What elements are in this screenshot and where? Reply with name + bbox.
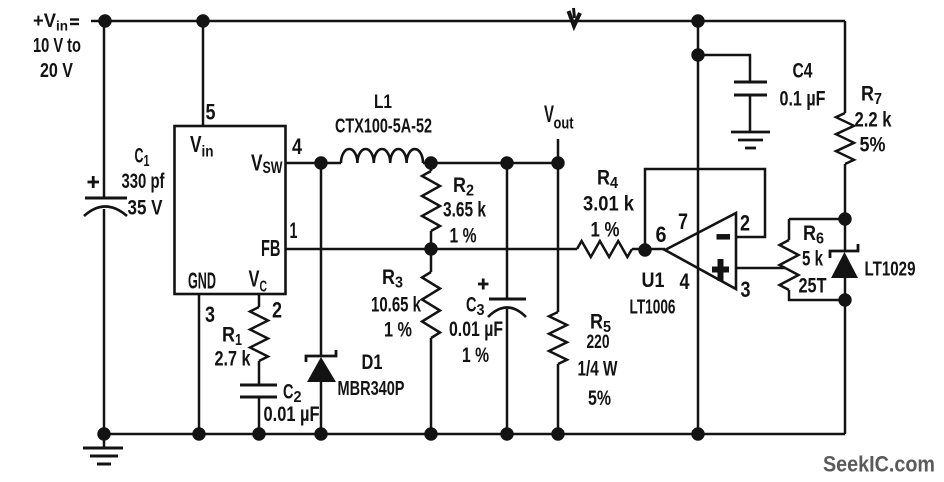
svg-text:4: 4 xyxy=(610,175,618,192)
R6 label xyxy=(803,222,824,248)
junction dot node V+ supply xyxy=(691,14,704,27)
potentiometer R6 xyxy=(780,240,799,290)
junction dot node gnd R3 xyxy=(424,427,437,440)
R1 label xyxy=(222,324,242,350)
IC label Vin xyxy=(190,131,214,161)
wire C4 to ground xyxy=(749,95,752,132)
svg-text:V: V xyxy=(249,266,260,292)
svg-text:C: C xyxy=(260,279,268,296)
C1 label xyxy=(135,145,150,171)
svg-text:1 %: 1 % xyxy=(450,225,477,248)
inductor L1 coil xyxy=(341,149,423,163)
wire C3 branch upper xyxy=(506,163,509,299)
C2 label xyxy=(283,381,302,407)
capacitor C1 (polarized) xyxy=(84,198,127,216)
C1 polarity + xyxy=(88,176,100,188)
svg-text:+V: +V xyxy=(33,11,56,32)
R7 label xyxy=(861,83,882,109)
wire D1 branch lower xyxy=(320,382,323,434)
svg-text:MBR340P: MBR340P xyxy=(338,378,405,400)
wire bottom ground rail xyxy=(104,433,845,436)
junction dot node gnd R5 xyxy=(551,427,564,440)
junction dot node op-amp output feedback xyxy=(638,243,651,256)
svg-text:C: C xyxy=(466,294,477,317)
svg-text:3: 3 xyxy=(395,275,403,292)
svg-text:out: out xyxy=(554,114,574,133)
op-amp inverting input minus xyxy=(717,234,731,240)
junction dot node pin5 branch xyxy=(196,14,209,27)
svg-text:L1: L1 xyxy=(374,92,392,113)
svg-text:R: R xyxy=(382,266,395,289)
node Vout label xyxy=(544,101,574,133)
svg-text:R: R xyxy=(590,311,603,334)
svg-text:R: R xyxy=(222,324,235,347)
svg-text:V: V xyxy=(251,150,263,176)
svg-text:1 %: 1 % xyxy=(591,219,620,242)
wire LT1029 cathode stub xyxy=(844,219,847,250)
wire R4 to op-amp output tip xyxy=(632,248,665,251)
svg-text:220: 220 xyxy=(587,332,610,353)
svg-text:0.01 µF: 0.01 µF xyxy=(449,318,503,341)
junction dot node gnd C1 xyxy=(97,427,110,440)
wire R7 upper lead xyxy=(844,21,847,113)
R4 label xyxy=(597,167,618,193)
svg-text:1 %: 1 % xyxy=(384,319,412,342)
svg-text:R: R xyxy=(861,83,874,106)
svg-text:3.65 k: 3.65 k xyxy=(443,199,486,222)
svg-text:R: R xyxy=(597,167,610,190)
svg-text:330 pf: 330 pf xyxy=(122,170,166,193)
svg-text:2.7 k: 2.7 k xyxy=(215,348,251,371)
junction dot node gnd V- xyxy=(691,427,704,440)
wire C1 branch upper xyxy=(103,21,106,198)
C3 label xyxy=(466,294,485,320)
svg-text:C4: C4 xyxy=(793,60,813,83)
wire current tick on top rail xyxy=(569,8,581,26)
svg-text:0.1 µF: 0.1 µF xyxy=(780,88,826,111)
junction dot node gnd C3 xyxy=(500,427,513,440)
svg-text:U1: U1 xyxy=(642,269,665,292)
svg-text:2.2 k: 2.2 k xyxy=(855,109,892,132)
svg-text:3: 3 xyxy=(741,277,751,302)
wire IC pin 3 GND to rail xyxy=(198,294,201,434)
svg-text:20 V: 20 V xyxy=(40,60,74,82)
svg-text:5 k: 5 k xyxy=(802,248,823,271)
svg-text:V: V xyxy=(544,101,554,128)
svg-text:FB: FB xyxy=(261,235,281,261)
junction dot node VSW D1 xyxy=(314,156,327,169)
resistor R5 xyxy=(549,312,567,364)
svg-text:1: 1 xyxy=(290,218,298,243)
wire pin 3 input to R6 wiper xyxy=(736,267,785,270)
wire FB line xyxy=(286,248,577,251)
svg-text:in: in xyxy=(202,144,214,161)
svg-text:2: 2 xyxy=(272,298,282,323)
svg-text:3: 3 xyxy=(205,302,215,327)
diode D1 Schottky xyxy=(306,350,336,382)
IC label VSW xyxy=(251,150,283,178)
wire R1 to C2 xyxy=(258,361,261,385)
svg-text:5%: 5% xyxy=(588,387,611,410)
svg-text:10 V to: 10 V to xyxy=(33,35,81,57)
svg-text:CTX100-5A-52: CTX100-5A-52 xyxy=(335,116,432,138)
svg-text:GND: GND xyxy=(188,268,216,294)
svg-text:7: 7 xyxy=(874,91,882,108)
junction dot node LT1029 anode xyxy=(838,293,851,306)
svg-text:1: 1 xyxy=(235,332,242,349)
op-amp U1 triangle xyxy=(665,213,736,289)
regulator IC box xyxy=(175,126,286,294)
wire supply vertical pins 7 and 4 xyxy=(697,21,700,434)
svg-text:LT1006: LT1006 xyxy=(630,297,676,319)
svg-text:in: in xyxy=(56,18,68,34)
junction dot node gnd D1 xyxy=(314,427,327,440)
resistor R4 xyxy=(577,241,632,257)
C3 polarity + xyxy=(478,279,489,290)
svg-text:0.01 µF: 0.01 µF xyxy=(264,403,320,426)
junction dot node FB divider xyxy=(424,242,437,255)
wire R3 leads xyxy=(430,249,433,434)
svg-text:1 %: 1 % xyxy=(462,344,489,367)
wire D1 branch upper xyxy=(320,163,323,355)
wire VSW to inductor xyxy=(286,162,341,165)
svg-text:6: 6 xyxy=(816,231,824,248)
svg-text:C: C xyxy=(283,381,294,404)
junction dot node gnd pin3 xyxy=(192,427,205,440)
wire R2 leads xyxy=(430,163,433,249)
svg-text:6: 6 xyxy=(656,222,667,247)
wire R6 body leads xyxy=(789,219,845,300)
ground symbol bottom-left xyxy=(83,448,123,464)
svg-text:LT1029: LT1029 xyxy=(865,259,916,281)
svg-text:7: 7 xyxy=(678,209,688,234)
IC label VC xyxy=(249,266,268,296)
junction dot node C3 top xyxy=(500,156,513,169)
wire top +Vin rail xyxy=(91,20,845,23)
svg-text:4: 4 xyxy=(292,134,303,159)
wire op-amp feedback loop pin 2 xyxy=(645,169,765,250)
svg-text:10.65 k: 10.65 k xyxy=(371,294,421,317)
junction dot node L1 R2 xyxy=(424,156,437,169)
resistor R7 xyxy=(836,113,854,164)
svg-text:D1: D1 xyxy=(362,351,383,374)
junction dot node +Vin C1 xyxy=(98,14,111,27)
svg-text:5: 5 xyxy=(206,100,216,125)
svg-text:5%: 5% xyxy=(860,134,886,157)
wire ground stub bottom-left xyxy=(103,434,106,448)
wire R5 leads xyxy=(557,163,560,434)
wire inductor to Vout node xyxy=(423,162,558,165)
resistor R1 xyxy=(250,307,268,361)
svg-text:SeekIC.com: SeekIC.com xyxy=(823,452,935,477)
ground symbol C4 xyxy=(731,132,770,148)
svg-text:1/4 W: 1/4 W xyxy=(578,358,618,381)
R3 label xyxy=(382,266,403,292)
wire C1 branch lower xyxy=(103,209,106,434)
wire pin 5 stub xyxy=(202,21,205,126)
svg-text:C: C xyxy=(135,145,144,168)
svg-text:R: R xyxy=(803,222,816,245)
zener reference LT1029 xyxy=(830,244,858,278)
wire C2 to rail xyxy=(258,397,261,434)
R5 label xyxy=(590,311,611,337)
svg-text:R: R xyxy=(453,174,466,197)
svg-text:1: 1 xyxy=(144,153,150,170)
svg-text:3: 3 xyxy=(477,302,485,319)
capacitor C2 xyxy=(240,385,277,397)
svg-text:4: 4 xyxy=(680,269,691,294)
wire IC pin 2 VC stub xyxy=(258,294,261,307)
wire C4 branch from supply xyxy=(698,55,750,82)
wire R6 top connection xyxy=(789,218,845,221)
svg-text:3.01 k: 3.01 k xyxy=(583,193,634,216)
junction dot node C4 branch xyxy=(691,48,704,61)
wire R7 lower lead xyxy=(844,164,847,219)
capacitor C4 xyxy=(734,82,767,95)
R2 label xyxy=(453,174,474,200)
svg-text:V: V xyxy=(190,131,202,157)
svg-text:25T: 25T xyxy=(799,275,827,298)
wire C3 branch lower xyxy=(506,309,509,434)
svg-text:2: 2 xyxy=(740,211,750,236)
junction dot node gnd C2 xyxy=(252,427,265,440)
op-amp noninverting input plus xyxy=(712,259,729,281)
wire Vout label stub xyxy=(557,139,560,163)
power label +Vin = xyxy=(33,11,79,34)
resistor R2 xyxy=(422,171,440,231)
resistor R3 xyxy=(422,272,440,338)
svg-text:2: 2 xyxy=(466,183,474,200)
junction dot node Vout xyxy=(551,156,564,169)
capacitor C3 (polarized) xyxy=(488,299,526,317)
junction dot node R7 R6 top xyxy=(838,212,851,225)
svg-text:35 V: 35 V xyxy=(128,197,163,220)
wire LT1029 anode to rail xyxy=(844,278,847,434)
svg-text:SW: SW xyxy=(263,158,284,177)
